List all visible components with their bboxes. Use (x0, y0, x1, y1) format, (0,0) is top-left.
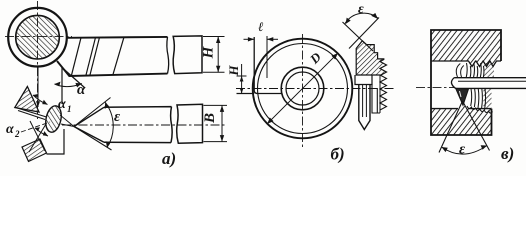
detail head ellipse hatched (43, 104, 63, 133)
alpha1 arc with arrows (33, 95, 48, 105)
centerline v) (416, 87, 454, 89)
form tool rim circle (258, 44, 348, 134)
alpha2 leader dashed (21, 122, 50, 132)
block top band hatched with thread notches (431, 30, 501, 67)
epsilon arc with arrows (345, 13, 379, 23)
plan view centerline (62, 124, 226, 126)
svg-text:B: B (202, 113, 218, 124)
tool bar top edge (454, 77, 526, 79)
alpha angle arc with arrows (55, 84, 82, 87)
B dimension extension top (204, 104, 228, 106)
tool bar side view bottom edge (57, 61, 168, 76)
slot wall lines below bar with scallops (471, 88, 486, 108)
tool bar mid line (458, 80, 526, 82)
land edge line (266, 36, 268, 78)
slot scalloped bottom (467, 106, 492, 113)
H dimension extension bottom (203, 71, 225, 73)
upper hatched wedge with stepped edge and teeth (356, 41, 386, 75)
H dimension extension top (203, 36, 225, 38)
detail vertical reference with arrow (37, 67, 39, 107)
H extension line top (b) (237, 75, 247, 77)
svg-text:ε: ε (358, 2, 364, 17)
svg-text:D: D (306, 49, 324, 67)
tool bar white body (453, 78, 526, 89)
svg-text:в): в) (501, 144, 514, 163)
vertical centerline of circle (37, 1, 39, 119)
epsilon line lower (74, 127, 112, 151)
slot wall lines above bar (466, 63, 484, 78)
broken-out second piece top view (173, 36, 202, 74)
plan tip upper face (74, 107, 104, 126)
svg-text:H: H (201, 45, 217, 59)
bend line 4 on shank (113, 37, 124, 74)
b) vertical centerline (302, 34, 304, 147)
plan bar body (104, 107, 172, 143)
b) horizontal centerline (236, 88, 395, 90)
epsilon v) arc with arrows (442, 146, 488, 155)
detail crossing flank lines (29, 121, 46, 152)
svg-text:ℓ: ℓ (258, 19, 264, 34)
epsilon arc with arrows (105, 102, 113, 147)
l dimension line with outside arrows (244, 38, 255, 40)
detail flank triangle upper hatched (15, 87, 39, 113)
B dimension extension bottom (204, 141, 228, 143)
H dimension line (217, 37, 219, 73)
detail face strip lines (16, 108, 47, 120)
workpiece bar circle outer (8, 8, 67, 67)
plan tip lower face (74, 127, 104, 143)
svg-text:ε: ε (114, 109, 121, 125)
epsilon line upper (74, 98, 111, 127)
chip curls above tip (456, 64, 464, 78)
collar rectangle (355, 75, 372, 85)
serration teeth zigzag lower (380, 75, 387, 110)
nose vertical reference line (61, 67, 63, 104)
tool bar rounded left end (451, 78, 455, 89)
alpha2 arc with arrow (35, 128, 48, 136)
bend line 3 on shank (90, 37, 100, 75)
serration left edge (379, 75, 381, 113)
radiating lines from ellipse to tip (60, 115, 74, 127)
bend line 2 on shank (86, 38, 96, 76)
hub inner lines (363, 84, 367, 117)
nose flank line (62, 68, 85, 89)
B dimension line (221, 105, 223, 141)
hub ring inner (286, 72, 319, 105)
block bottom band hatched (431, 105, 492, 135)
detail corner bracket (47, 129, 65, 154)
detail lower wedge hatched (22, 139, 47, 162)
svg-text:ε: ε (459, 142, 466, 158)
serrated strip body below (372, 84, 380, 113)
horizontal centerline of circle (5, 36, 72, 38)
slot hatch above bar (484, 63, 495, 78)
slot hatch below bar (484, 88, 492, 108)
tool bar side view right break edge (167, 37, 169, 74)
svg-text:α: α (6, 122, 14, 137)
epsilon v) left line (439, 101, 463, 153)
tool tip triangle hatched dark (456, 88, 469, 105)
face bottom horizontal with fillet (237, 91, 282, 94)
side view hub body (359, 84, 370, 130)
svg-text:2: 2 (14, 129, 20, 139)
epsilon v) right line (463, 101, 490, 151)
tool bar bottom edge (456, 87, 526, 89)
plan second piece (177, 104, 203, 143)
svg-text:б): б) (331, 145, 345, 164)
D diameter arrow (267, 53, 337, 123)
form tool outer circle (253, 39, 353, 139)
bore top edge with thread teeth (431, 61, 501, 67)
H dimension line (b) (241, 64, 243, 94)
svg-text:а): а) (162, 149, 176, 168)
hub ring outer (281, 67, 324, 110)
face line vertical (253, 37, 255, 91)
bend line 1 on shank (72, 38, 82, 75)
svg-text:α: α (77, 82, 86, 98)
svg-text:H: H (226, 65, 241, 77)
epsilon vertex lines (343, 22, 374, 51)
tool shank circle inner hatched (16, 15, 60, 59)
block outline (431, 30, 501, 135)
tool bar side view top edge (67, 36, 168, 39)
bore bottom edge (431, 108, 492, 110)
svg-text:1: 1 (67, 104, 72, 114)
